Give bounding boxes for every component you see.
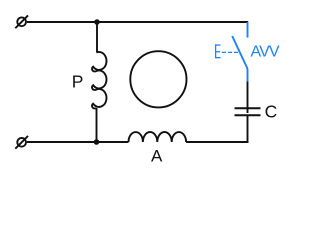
wire P top lead xyxy=(96,22,98,53)
wire top xyxy=(27,21,248,23)
capacitor C plate bottom xyxy=(235,114,261,116)
motor circle xyxy=(130,51,186,107)
switch blade AVV xyxy=(232,36,247,70)
wire capacitor bottom lead xyxy=(248,115,249,142)
capacitor C plate top xyxy=(235,107,261,109)
svg-text:AVV: AVV xyxy=(251,44,280,61)
actuator symbol E xyxy=(215,44,221,58)
wire P bottom lead xyxy=(96,108,98,142)
actuation dashed link xyxy=(222,51,239,53)
svg-text:P: P xyxy=(72,72,84,92)
svg-text:C: C xyxy=(265,101,278,121)
terminal top-left xyxy=(15,15,28,28)
wire right top contact (blue) xyxy=(247,22,249,38)
node bottom junction xyxy=(94,139,100,145)
svg-text:A: A xyxy=(151,147,163,166)
terminal bottom-left xyxy=(15,136,28,149)
wire switch bottom (blue) xyxy=(247,69,249,82)
wire bottom xyxy=(27,141,248,143)
inductor P xyxy=(92,52,107,108)
wire capacitor top lead xyxy=(247,82,249,114)
inductor A xyxy=(129,132,187,142)
node top junction xyxy=(94,19,100,25)
